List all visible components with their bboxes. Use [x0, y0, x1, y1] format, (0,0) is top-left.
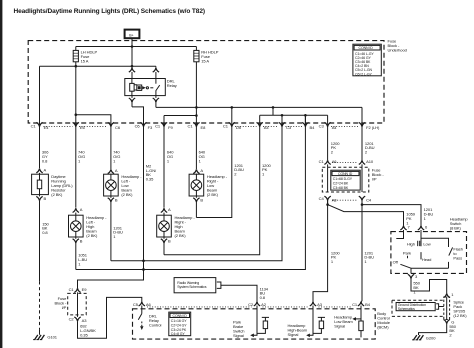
label fuse block underhood: [388, 39, 407, 53]
connector dotted link IP bottom: [332, 199, 358, 201]
relay DRL bottom pins: [129, 96, 159, 108]
svg-text:A2: A2: [261, 302, 267, 307]
wire 740 OG left low: [111, 123, 121, 169]
svg-text:Signal: Signal: [288, 332, 299, 337]
svg-text:Head: Head: [422, 257, 431, 262]
connector dotted links: [44, 125, 359, 127]
svg-text:I/P: I/P: [372, 177, 377, 182]
pin B headlamp left high: [73, 237, 83, 244]
pin C1/E4: [31, 122, 50, 130]
svg-text:High: High: [407, 241, 415, 246]
pin A4: [257, 122, 270, 130]
reference radio warning system: [174, 278, 221, 293]
svg-text:0.8: 0.8: [42, 159, 48, 164]
pin B headlamp right low: [193, 196, 203, 203]
wire M2 L-GN/BK relay coil control: [78, 123, 158, 288]
fuse block IP left box: [54, 293, 86, 315]
connector dotted links BCM: [147, 306, 352, 308]
svg-text:1: 1: [113, 234, 116, 239]
svg-text:A6: A6: [146, 302, 152, 307]
svg-text:Pass: Pass: [453, 256, 462, 261]
svg-text:C1=68 D-GY: C1=68 D-GY: [333, 177, 353, 181]
svg-text:B4: B4: [365, 302, 371, 307]
svg-text:A: A: [168, 207, 171, 212]
resistor DRL (daytime running lamp): [32, 174, 74, 197]
input headlamp low beam signal: [334, 309, 363, 338]
pin C4/A8 fuse block IP: [319, 196, 338, 203]
pin 1 splice pack: [444, 292, 455, 297]
fuse LH HDLP 15A: [73, 47, 97, 64]
svg-text:I/P: I/P: [62, 305, 67, 310]
svg-text:C2=24 BK: C2=24 BK: [333, 181, 349, 185]
ground distribution reference: [392, 300, 444, 316]
wire low beam feed links: [260, 106, 328, 123]
pin A headlamp left high: [73, 207, 83, 215]
svg-text:Relay: Relay: [167, 83, 178, 88]
svg-text:E9: E9: [82, 287, 88, 292]
wire 550 BK to splice pack: [411, 279, 447, 295]
svg-text:C1: C1: [187, 124, 193, 129]
svg-text:A4: A4: [332, 125, 338, 130]
svg-text:B: B: [115, 198, 118, 203]
svg-text:1: 1: [78, 262, 81, 267]
svg-text:E8: E8: [201, 125, 207, 130]
relay DRL: [125, 78, 178, 95]
wire 1201 D-BU to switch pin 6: [361, 203, 434, 226]
label fuse block IP: [372, 168, 385, 182]
pin C1/A6 fuse block IP: [319, 159, 338, 168]
wire bus fuse tops: [76, 45, 197, 48]
wire relay coil output: [132, 107, 144, 123]
svg-text:C6: C6: [135, 124, 141, 129]
pin A10 fuse block IP: [359, 159, 374, 168]
svg-text:6: 6: [425, 225, 428, 230]
input park brake switch signal: [233, 309, 269, 338]
pin A3 BCM: [310, 302, 323, 309]
svg-text:C3=68 BK: C3=68 BK: [333, 186, 349, 190]
svg-text:C1: C1: [352, 302, 358, 307]
svg-text:CONN ID: CONN ID: [338, 172, 353, 176]
svg-text:A3: A3: [82, 318, 88, 323]
wire 1051 L-BU left high return: [76, 243, 88, 270]
svg-text:(2 BK): (2 BK): [121, 192, 133, 197]
wire 640 OG right low: [196, 123, 206, 169]
svg-text:B: B: [44, 196, 47, 201]
connector dotted link IP top: [332, 161, 358, 163]
fuse RH HDLP 15A: [194, 47, 219, 64]
pin C5/A6 BCM: [133, 302, 152, 309]
pin A headlamp left low: [108, 168, 118, 174]
wire 150 BK to G101: [40, 201, 50, 330]
lamp headlamp right low beam: [189, 174, 228, 197]
wire from C3: [111, 115, 282, 260]
label body control module: [377, 311, 391, 330]
wire 1201 D-BU from D5: [196, 123, 244, 218]
svg-text:A3: A3: [317, 302, 323, 307]
svg-text:C5: C5: [133, 302, 139, 307]
svg-text:Underhood: Underhood: [388, 48, 407, 53]
svg-text:0.35: 0.35: [146, 176, 154, 181]
svg-text:B: B: [80, 239, 83, 244]
svg-text:C3: C3: [319, 124, 325, 129]
splice pack SP205: [444, 297, 467, 320]
body control module box: [133, 309, 376, 339]
wire 740 OG left high: [76, 123, 86, 208]
svg-text:E6: E6: [80, 125, 86, 130]
wire 1134 BU to BCM A2: [221, 285, 269, 302]
svg-text:A4: A4: [264, 125, 270, 130]
wire right high return: [163, 243, 165, 255]
wire LH fuse output bus: [40, 62, 156, 123]
wire 692 L-GN/BK to BCM A6: [78, 297, 142, 338]
svg-text:B+: B+: [129, 33, 133, 37]
svg-text:E4: E4: [44, 125, 50, 130]
pin B headlamp left low: [108, 196, 118, 203]
pin C3: [279, 122, 292, 130]
svg-text:F9: F9: [168, 125, 173, 130]
svg-text:A: A: [44, 167, 47, 172]
svg-text:C1: C1: [69, 287, 75, 292]
svg-text:C2: C2: [248, 302, 254, 307]
wire 550 BK 2 to G200: [419, 324, 457, 338]
svg-text:(2 BK): (2 BK): [207, 192, 219, 197]
svg-text:(12 BK): (12 BK): [453, 313, 467, 318]
svg-text:15 A: 15 A: [201, 59, 209, 64]
svg-text:C1: C1: [155, 124, 161, 129]
fuse block underhood box: [28, 41, 384, 123]
title: [14, 8, 205, 15]
svg-text:2: 2: [449, 333, 452, 338]
svg-text:1: 1: [424, 216, 427, 221]
svg-text:1: 1: [451, 292, 454, 297]
pin C2/A2 BCM: [248, 302, 267, 309]
svg-text:C2: C2: [69, 317, 75, 322]
svg-text:15 A: 15 A: [81, 59, 89, 64]
switch headlamp box: [391, 232, 467, 274]
pin A DRL resistor: [36, 167, 46, 174]
svg-text:0.8: 0.8: [260, 295, 266, 300]
pin B4: [302, 122, 315, 130]
svg-text:Low: Low: [423, 241, 430, 246]
svg-text:C1: C1: [223, 124, 229, 129]
svg-text:1: 1: [413, 289, 416, 294]
pin C1/E8: [187, 122, 206, 130]
pin B headlamp right high: [161, 237, 171, 244]
input headlamp high-beam signal: [288, 309, 326, 337]
svg-text:A: A: [200, 168, 203, 173]
wire relay switch output bus: [156, 62, 362, 123]
svg-text:1: 1: [331, 259, 334, 264]
svg-text:Headlights/Daytime Running Lig: Headlights/Daytime Running Lights (DRL) …: [14, 8, 205, 15]
wire 1059 PK to switch pin 7: [326, 200, 416, 225]
svg-text:0.35: 0.35: [80, 332, 88, 337]
pin C6: [108, 122, 121, 130]
pin C1/F9: [155, 122, 173, 130]
pin C3/A4: [319, 122, 338, 130]
svg-text:1: 1: [167, 159, 170, 164]
wire 1201 D-BU 2 to IP block: [362, 123, 375, 160]
svg-text:C1=16 GY: C1=16 GY: [171, 319, 187, 323]
svg-text:C6=2 L-GY: C6=2 L-GY: [355, 72, 373, 76]
svg-text:(2 BK): (2 BK): [51, 192, 63, 197]
svg-text:Control: Control: [149, 322, 162, 327]
svg-text:1: 1: [364, 259, 367, 264]
relay DRL top pins: [129, 66, 159, 78]
ground G200: [412, 333, 436, 340]
wire 306 GY to DRL resistor: [40, 123, 50, 168]
pin E6: [73, 122, 86, 130]
wire 1200 PK from A4: [164, 123, 272, 255]
svg-text:1: 1: [78, 159, 81, 164]
svg-text:C1: C1: [319, 159, 325, 164]
svg-text:CONN ID: CONN ID: [359, 46, 374, 50]
svg-text:D5: D5: [236, 125, 242, 130]
svg-text:Park: Park: [403, 251, 412, 256]
pin A headlamp right high: [161, 207, 171, 215]
pin A headlamp right low: [193, 168, 203, 174]
wire 1200 PK 2 to IP block: [328, 123, 341, 160]
lamp headlamp left high beam: [69, 215, 108, 238]
wire right low return: [195, 202, 197, 218]
svg-text:System Schematics: System Schematics: [177, 285, 206, 289]
svg-text:C1: C1: [31, 124, 37, 129]
lamp headlamp left low beam: [104, 174, 143, 197]
pin F2 (LH): [359, 122, 380, 130]
svg-text:C2=24 GY: C2=24 GY: [171, 323, 187, 327]
fuse block IP box: [322, 167, 369, 192]
svg-text:1: 1: [199, 159, 202, 164]
svg-text:A: A: [115, 168, 118, 173]
pin C2/A3 fuse block IP left: [69, 315, 88, 323]
wire B+ vertical: [131, 39, 133, 66]
svg-text:(BCM): (BCM): [377, 324, 389, 329]
svg-text:Schematics: Schematics: [398, 307, 415, 311]
svg-text:C4=8 GY: C4=8 GY: [171, 332, 186, 336]
battery feed B+: [125, 30, 140, 39]
pin 3 headlamp switch: [408, 274, 418, 279]
connector table C2 PIN ID: [353, 44, 381, 76]
svg-text:C6: C6: [115, 125, 121, 130]
pin 7 headlamp switch: [400, 225, 410, 232]
svg-text:(2 BK): (2 BK): [175, 233, 187, 238]
wire 1201 D-BU 1 to BCM B4: [361, 200, 374, 301]
pin C1/B4 BCM: [352, 302, 371, 309]
svg-text:B: B: [168, 239, 171, 244]
svg-text:0.8: 0.8: [42, 230, 48, 235]
wire 640 OG right high: [164, 123, 174, 208]
svg-text:B4: B4: [310, 125, 316, 130]
pin C1/E9 fuse block IP left: [69, 287, 88, 294]
switch DRL relay control driver: [138, 309, 161, 330]
svg-text:G101: G101: [47, 334, 57, 339]
svg-text:Signal: Signal: [334, 324, 345, 329]
ground G101: [33, 330, 58, 340]
svg-text:A6: A6: [332, 159, 338, 164]
svg-text:F3: F3: [148, 125, 153, 130]
wire 1201 D-BU left low return: [111, 202, 123, 261]
svg-text:CONN ID: CONN ID: [173, 314, 188, 318]
svg-text:Signal: Signal: [233, 333, 244, 338]
connector table CONN ID (IP): [331, 170, 360, 190]
svg-text:Off: Off: [393, 259, 399, 264]
svg-text:7: 7: [408, 225, 411, 230]
wire 1200 PK 1 to BCM A3: [313, 200, 340, 301]
svg-text:C3=24 PK: C3=24 PK: [171, 328, 187, 332]
label headlamp switch: [450, 216, 469, 230]
svg-text:C4: C4: [319, 196, 325, 201]
svg-text:(2 BK): (2 BK): [86, 233, 98, 238]
connector table CONN ID (BCM): [169, 312, 191, 336]
pin B DRL resistor: [36, 195, 46, 202]
svg-text:C4: C4: [366, 198, 372, 203]
pin G splice pack: [444, 319, 455, 324]
wire from B4: [76, 115, 306, 271]
pin C4 fuse block IP: [359, 196, 372, 202]
svg-text:C3: C3: [286, 125, 292, 130]
svg-text:G200: G200: [426, 335, 436, 340]
pin C6/F3: [135, 122, 153, 130]
svg-text:1: 1: [113, 159, 116, 164]
svg-text:A: A: [80, 207, 83, 212]
pin 6 headlamp switch: [418, 225, 428, 232]
switch headlamp internals: [393, 232, 463, 274]
svg-text:3: 3: [415, 274, 418, 279]
svg-text:F2 (LH): F2 (LH): [366, 125, 380, 130]
svg-text:A10: A10: [366, 159, 374, 164]
svg-text:B: B: [200, 198, 203, 203]
pin C1/D5: [223, 122, 242, 130]
lamp headlamp right high beam: [157, 215, 196, 238]
svg-text:(8 BK): (8 BK): [450, 225, 462, 230]
